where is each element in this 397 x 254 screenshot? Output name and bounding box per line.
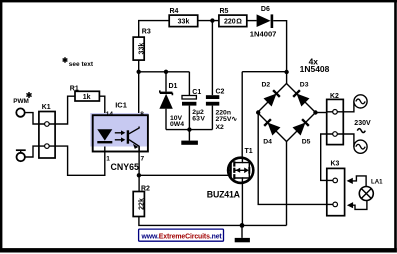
svg-text:K1: K1 xyxy=(42,104,51,111)
wire C1 bottom down xyxy=(188,106,190,130)
AC source circle 2 xyxy=(354,140,367,153)
wire K1 pin to pin 1 xyxy=(55,143,105,175)
terminal PWM input xyxy=(13,92,31,117)
svg-text:www.ExtremeCircuits.net: www.ExtremeCircuits.net xyxy=(141,233,223,240)
wire ground link D1-C1-C2 xyxy=(166,129,212,131)
svg-text:1k: 1k xyxy=(83,94,91,101)
svg-text:BUZ41A: BUZ41A xyxy=(207,189,241,199)
wire R2 to bottom rail xyxy=(139,217,287,226)
wire ground stub xyxy=(188,130,190,141)
svg-text:K2: K2 xyxy=(330,93,339,100)
wire D1 anode down xyxy=(165,109,167,130)
svg-text:D2: D2 xyxy=(262,82,271,89)
text 4x 1N5408 xyxy=(300,56,330,74)
wire rail to C1 xyxy=(188,72,190,96)
wire K1 pin to R1 xyxy=(55,96,75,124)
svg-text:0W4: 0W4 xyxy=(170,121,184,128)
wire left supply rail xyxy=(139,71,190,73)
text 230V xyxy=(354,120,371,133)
node ground link xyxy=(187,127,191,131)
svg-text:1N4007: 1N4007 xyxy=(250,29,277,38)
border frame xyxy=(0,0,397,2)
wire drain rail xyxy=(242,71,286,73)
ground bar xyxy=(181,141,198,145)
wire R3 top to R4 xyxy=(139,21,170,37)
lamp LA1 xyxy=(359,179,383,201)
svg-text:R2: R2 xyxy=(141,185,150,192)
wire K2 to AC source 2 xyxy=(343,134,354,147)
svg-text:C2: C2 xyxy=(216,88,225,95)
node source ground xyxy=(240,223,245,228)
text see text note xyxy=(63,57,94,68)
svg-text:275V∿: 275V∿ xyxy=(216,116,238,123)
AC source circle 1 xyxy=(354,95,367,108)
svg-text:33k: 33k xyxy=(178,19,190,26)
wire bridge frame xyxy=(258,84,316,142)
svg-text:D3: D3 xyxy=(300,82,309,89)
svg-text:220 Ω: 220 Ω xyxy=(224,19,242,26)
wire R3 bottom to rail xyxy=(138,60,140,72)
wire pin7 to R2 xyxy=(138,146,140,191)
transistor T1 BUZ41A xyxy=(207,148,253,200)
node junction R4-R5-C2 xyxy=(210,18,214,22)
diode D3 xyxy=(293,82,309,106)
terminal PWM return xyxy=(16,150,26,161)
node left vertex xyxy=(256,110,260,114)
wire K2 lower pin to K3 upper pin xyxy=(321,134,332,180)
svg-text:230V: 230V xyxy=(354,120,371,127)
svg-text:R5: R5 xyxy=(220,8,229,15)
wire R4 to R5 xyxy=(198,20,219,22)
wire junction down to C2 xyxy=(211,21,213,96)
arrow plug lower xyxy=(347,200,367,209)
svg-text:63 V: 63 V xyxy=(192,115,205,122)
svg-text:LA1: LA1 xyxy=(371,179,383,186)
svg-text:X2: X2 xyxy=(216,124,225,131)
wire gate xyxy=(139,174,228,176)
svg-text:C1: C1 xyxy=(192,89,201,96)
diode D6 1N4007 xyxy=(250,6,277,39)
wire bridge bottom to rail xyxy=(286,142,288,226)
svg-text:8: 8 xyxy=(140,111,144,118)
resistor R5 xyxy=(219,8,247,27)
node rail / D1 xyxy=(164,70,168,74)
svg-text:D6: D6 xyxy=(261,6,270,13)
wire pin 8 drop xyxy=(138,72,140,127)
resistor R3 xyxy=(133,29,151,61)
svg-text:14: 14 xyxy=(106,111,114,118)
svg-text:33k: 33k xyxy=(139,43,146,55)
resistor R4 xyxy=(169,8,198,27)
svg-text:22k: 22k xyxy=(139,198,146,210)
wire K2 to AC source 1 xyxy=(343,101,354,111)
diode D2 xyxy=(262,82,280,106)
wire C2 bottom down xyxy=(211,106,213,130)
svg-text:CNY65: CNY65 xyxy=(111,162,139,172)
wire drain vertical to T1 xyxy=(241,72,243,158)
capacitor C2 xyxy=(206,88,237,130)
svg-text:D1: D1 xyxy=(169,83,178,90)
svg-text:T1: T1 xyxy=(245,148,253,155)
svg-text:D5: D5 xyxy=(302,138,311,145)
wire PWM to K1 xyxy=(25,113,39,124)
svg-text:1N5408: 1N5408 xyxy=(300,64,330,74)
node rail / pin8 xyxy=(137,70,141,74)
connector K2 xyxy=(327,93,344,145)
wire R5 to D6 xyxy=(247,20,257,22)
resistor R1 xyxy=(70,85,100,101)
svg-text:R3: R3 xyxy=(142,29,151,36)
wire bridge left vertex to K3 xyxy=(258,113,331,205)
wire rail to D1 cathode xyxy=(165,72,167,92)
resistor R2 xyxy=(133,185,150,216)
watermark box xyxy=(139,229,224,241)
connector K3 xyxy=(327,161,345,216)
svg-text:PWM: PWM xyxy=(13,98,29,105)
wire D6 to bridge top node xyxy=(273,21,286,84)
wire T1 source down xyxy=(241,183,243,225)
connector K1 xyxy=(39,104,55,158)
wire ground stub 2 xyxy=(241,225,243,238)
arrow plug upper xyxy=(347,176,367,187)
svg-text:R4: R4 xyxy=(170,8,179,15)
svg-text:7: 7 xyxy=(141,156,145,163)
node right vertex xyxy=(313,110,317,114)
diode D5 xyxy=(294,119,311,145)
wire return to K1 xyxy=(25,146,39,157)
node pin7 gate junction xyxy=(137,173,141,177)
wire R1 to pin 14 xyxy=(99,96,104,129)
op-amp IC1 optocoupler CNY65 xyxy=(90,100,148,172)
svg-text:see text: see text xyxy=(69,61,94,68)
node bridge+ / D6 / drain xyxy=(284,70,288,74)
wire right vertex to K2 xyxy=(316,112,327,114)
capacitor C1 xyxy=(182,89,205,122)
diode D4 xyxy=(263,119,279,145)
svg-text:R1: R1 xyxy=(70,85,79,92)
svg-text:K3: K3 xyxy=(331,161,340,168)
zener diode D1 xyxy=(159,83,184,128)
ground bar 2 xyxy=(235,238,250,242)
svg-text:IC1: IC1 xyxy=(115,100,127,109)
svg-text:D4: D4 xyxy=(263,138,272,145)
